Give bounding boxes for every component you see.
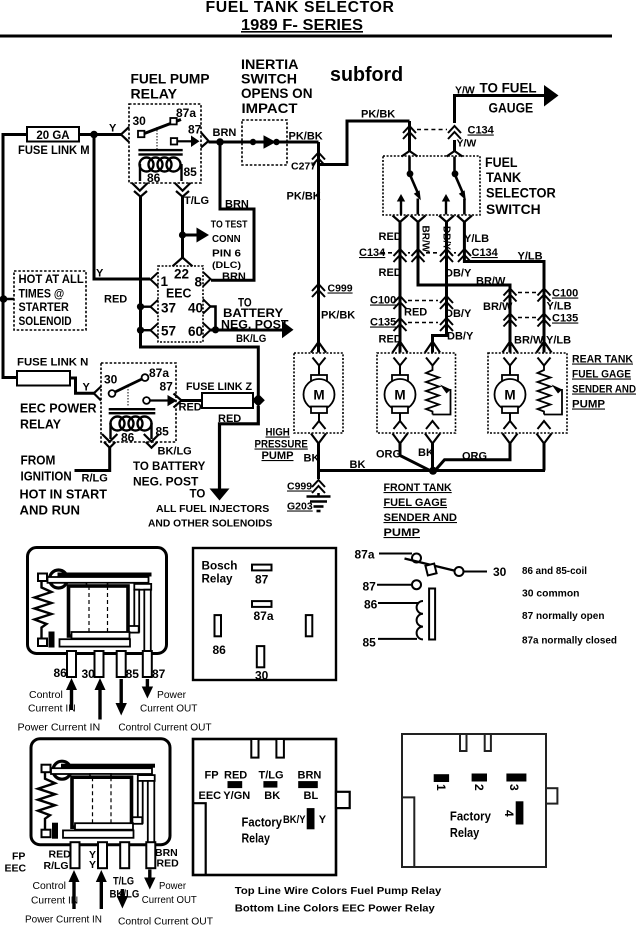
front sender wiper arm	[433, 389, 451, 415]
svg-text:Y: Y	[89, 859, 96, 871]
front sender pin chevron bottom	[426, 421, 439, 429]
rear tank crow feet entry	[503, 342, 518, 353]
svg-text:Relay: Relay	[202, 572, 233, 586]
junction dot Y tap	[90, 131, 98, 139]
svg-text:3: 3	[507, 784, 521, 791]
HP pump motor M	[304, 366, 335, 422]
cutaway2 arrow 87 out	[148, 870, 151, 879]
bosch pin slot 30	[257, 646, 265, 667]
wire ORG front left	[400, 444, 431, 471]
svg-text:RELAY: RELAY	[20, 417, 61, 432]
svg-text:20 GA: 20 GA	[36, 130, 69, 142]
svg-text:FUEL GAGE: FUEL GAGE	[572, 369, 631, 381]
ground symbol G203	[307, 493, 331, 511]
front tank crow feet entry	[393, 342, 408, 353]
svg-text:Current IN: Current IN	[31, 895, 78, 907]
svg-text:Relay: Relay	[450, 826, 479, 840]
factory1 top slot a	[251, 739, 258, 758]
svg-text:TO TEST: TO TEST	[211, 219, 248, 231]
junction dot pin37	[137, 303, 144, 310]
svg-text:ORG: ORG	[376, 449, 401, 461]
wire T/LG 85 riser to EEC pin22	[181, 197, 184, 258]
svg-text:85: 85	[184, 165, 198, 179]
factory2 pin 4	[516, 801, 524, 824]
svg-text:RED: RED	[104, 294, 127, 306]
arrow to battery neg post	[282, 321, 294, 338]
wire PK/BK into switch	[408, 121, 411, 152]
svg-text:FUEL TANK SELECTOR: FUEL TANK SELECTOR	[206, 0, 395, 16]
relay K2 input chevron pin30	[94, 387, 101, 401]
wire left rail	[3, 135, 27, 378]
connector C999 chevrons on PK/BK	[312, 284, 325, 297]
svg-text:EEC: EEC	[199, 790, 222, 802]
switch pole right arm	[456, 176, 464, 195]
bosch relay cutaway drawing 2	[31, 739, 170, 869]
rear sender resistor	[538, 366, 551, 415]
relay K1 wire 87 to output	[178, 140, 193, 142]
switch left open terminal arrow	[400, 201, 402, 215]
cutaway1 caption control current in	[18, 689, 213, 734]
svg-text:87 normally open: 87 normally open	[522, 610, 605, 622]
svg-text:Control Current OUT: Control Current OUT	[118, 722, 212, 734]
junction dot pin57	[137, 327, 144, 334]
svg-text:Factory: Factory	[450, 810, 491, 824]
inertia contact dot right	[273, 139, 279, 145]
svg-text:EEC: EEC	[166, 286, 192, 301]
svg-text:M: M	[394, 388, 405, 403]
front pump pin chevron bottom	[394, 421, 407, 429]
svg-text:M: M	[313, 388, 324, 403]
svg-text:SENDER AND: SENDER AND	[572, 384, 636, 396]
crow foot HP pump exit	[311, 434, 326, 444]
switch right open terminal arrow	[445, 201, 447, 215]
svg-text:30: 30	[82, 667, 96, 681]
svg-text:C100: C100	[370, 295, 396, 307]
wire DB/Y from switch	[433, 222, 447, 353]
svg-text:C134: C134	[472, 247, 499, 259]
svg-text:Factory: Factory	[242, 816, 283, 830]
switch left closed terminal	[416, 199, 419, 215]
dashed link C100 right	[518, 292, 536, 294]
svg-text:40: 40	[188, 301, 203, 316]
svg-text:PK/BK: PK/BK	[361, 109, 395, 121]
wire BRN relay output to inertia switch	[209, 141, 243, 144]
svg-text:60: 60	[188, 324, 203, 339]
rear sender pin chevron bottom	[538, 421, 551, 429]
wire BK rear	[543, 444, 546, 471]
wire BR/W from switch	[418, 222, 510, 353]
relay K2 exit chevrons 86	[102, 434, 117, 448]
svg-text:Power Current IN: Power Current IN	[25, 914, 102, 926]
svg-text:TO BATTERY: TO BATTERY	[133, 461, 206, 473]
svg-text:SENDER AND: SENDER AND	[384, 512, 458, 524]
cutaway1 arrow 30 in	[98, 687, 101, 720]
svg-text:C135: C135	[552, 313, 578, 325]
svg-text:2: 2	[472, 784, 486, 791]
svg-text:SOLENOID: SOLENOID	[19, 316, 72, 328]
svg-text:BRN: BRN	[298, 770, 322, 782]
svg-text:BK/LG: BK/LG	[158, 446, 192, 458]
fuse link Z box	[202, 393, 253, 408]
svg-text:FUEL GAGE: FUEL GAGE	[384, 497, 448, 509]
factory2 pin 2	[472, 774, 487, 782]
svg-text:FP: FP	[12, 851, 25, 863]
junction dot test-conn tap	[179, 231, 186, 238]
svg-text:PK/BK: PK/BK	[321, 310, 355, 322]
svg-text:EEC: EEC	[5, 863, 27, 875]
svg-text:OPENS ON: OPENS ON	[241, 86, 313, 101]
svg-text:INERTIA: INERTIA	[241, 57, 299, 72]
relay schematic coil	[417, 601, 423, 639]
rear tank sender dotted box	[488, 353, 567, 433]
svg-text:STARTER: STARTER	[19, 302, 70, 314]
svg-text:BL: BL	[304, 790, 319, 802]
wire BK ground bus	[319, 444, 546, 471]
front tank crow feet exit	[393, 434, 408, 444]
EEC pin60 chevron	[203, 323, 211, 337]
svg-text:DB/Y: DB/Y	[447, 331, 474, 343]
svg-text:BK: BK	[264, 790, 280, 802]
svg-text:TANK: TANK	[486, 170, 522, 185]
switch pole right arm arrowhead	[459, 190, 466, 200]
svg-text:RED: RED	[218, 413, 241, 425]
wire through inertia switch	[242, 141, 319, 144]
svg-text:4: 4	[502, 810, 516, 817]
svg-text:SWITCH: SWITCH	[241, 72, 297, 87]
HP pump pin chevron top	[313, 358, 326, 366]
svg-text:IMPACT: IMPACT	[242, 101, 299, 116]
junction dot hot-at-all-times	[0, 295, 7, 303]
relay schematic core bar	[429, 589, 435, 640]
EEC pin8 chevron	[203, 272, 211, 286]
relay K2 exit chevrons 85	[144, 434, 159, 448]
switch pole left arm arrowhead	[414, 190, 421, 200]
svg-text:BR/W: BR/W	[420, 226, 431, 253]
svg-text:BR/W: BR/W	[514, 335, 544, 347]
rear sender pin chevron top	[538, 358, 551, 366]
svg-text:ALL FUEL INJECTORS: ALL FUEL INJECTORS	[156, 503, 269, 515]
svg-text:1989 F- SERIES: 1989 F- SERIES	[241, 17, 363, 34]
connector C134 chevrons left (PK/BK)	[403, 126, 416, 139]
svg-text:87a: 87a	[355, 548, 375, 562]
EEC pin37 chevron	[151, 300, 159, 314]
cutaway2 arrow 86 in	[72, 880, 75, 909]
svg-text:87: 87	[160, 380, 174, 394]
svg-text:Current OUT: Current OUT	[140, 703, 198, 715]
svg-text:BK/LG: BK/LG	[236, 333, 266, 345]
junction diamond RED	[252, 394, 265, 407]
crow foot HP pump entry	[311, 342, 326, 353]
wire ground drop	[317, 471, 320, 480]
front pump motor M	[385, 366, 416, 422]
svg-text:Y/GN: Y/GN	[223, 790, 250, 802]
svg-text:BR/W: BR/W	[483, 301, 513, 313]
switch pole left arm	[411, 176, 419, 195]
crow foot Y/W into box	[447, 151, 463, 157]
svg-text:subford: subford	[330, 63, 403, 86]
inertia diode symbol	[264, 135, 277, 148]
arrow to all fuel injectors	[210, 489, 230, 501]
svg-text:TIMES @: TIMES @	[19, 289, 65, 301]
wire to fuel gauge	[455, 96, 546, 124]
svg-text:Bosch: Bosch	[202, 559, 238, 573]
wire fuse Z to junction	[253, 399, 258, 402]
fuse link N box	[17, 371, 70, 386]
svg-text:FRONT TANK: FRONT TANK	[384, 482, 452, 494]
switch right closed terminal	[463, 199, 466, 215]
connector C100 chevrons right pair	[504, 289, 551, 302]
EEC pin40 chevron	[203, 299, 211, 314]
EEC power relay K2 dashed box	[101, 363, 176, 442]
svg-text:AND OTHER SOLENOIDS: AND OTHER SOLENOIDS	[148, 518, 272, 530]
wire RED 86 riser to EEC pins and fuse link Z	[141, 197, 259, 395]
svg-text:TO FUEL: TO FUEL	[480, 81, 537, 96]
svg-text:NEG. POST: NEG. POST	[133, 477, 198, 489]
title rule	[0, 35, 612, 38]
svg-text:Y/W: Y/W	[457, 138, 477, 150]
Bosch relay pinout box	[193, 548, 336, 680]
svg-text:RED: RED	[379, 267, 402, 279]
wire pin40 down to pin60	[211, 307, 216, 330]
svg-text:FUSE LINK M: FUSE LINK M	[18, 145, 90, 157]
svg-text:C277: C277	[291, 161, 316, 173]
wire R/LG from ignition	[75, 448, 110, 471]
wire RED to injectors	[220, 406, 259, 489]
svg-text:87a: 87a	[149, 366, 169, 380]
svg-text:86 and 85-coil: 86 and 85-coil	[522, 565, 587, 577]
arrow to test conn	[197, 228, 210, 243]
wire BK front right	[431, 444, 434, 471]
junction dot pin40/60	[212, 326, 219, 333]
wire stub to HOT box	[3, 298, 14, 301]
front tank sender dotted box	[377, 353, 456, 433]
wire stub pin37	[141, 306, 151, 308]
svg-text:T/LG: T/LG	[259, 770, 284, 782]
svg-text:Bottom Line Colors EEC Power R: Bottom Line Colors EEC Power Relay	[235, 903, 435, 915]
svg-text:86: 86	[364, 598, 378, 612]
svg-text:PK/BK: PK/BK	[287, 191, 321, 203]
svg-text:1: 1	[434, 784, 448, 791]
relay K2 output arrowhead	[168, 395, 178, 406]
svg-text:BRN: BRN	[222, 271, 246, 283]
connector C100 chevrons left pair	[394, 296, 454, 309]
svg-text:ORG: ORG	[462, 451, 487, 463]
wire branch to fuel gauge run	[319, 121, 410, 165]
dashed link C134 pair	[417, 129, 447, 131]
svg-text:87: 87	[188, 123, 202, 137]
rear tank crow feet exit	[503, 434, 518, 444]
svg-text:86: 86	[213, 643, 227, 657]
cutaway1 arrow 87 out	[146, 679, 149, 688]
front sender resistor	[426, 366, 439, 415]
svg-text:RED: RED	[179, 402, 202, 414]
cutaway2 arrow 85 out	[121, 889, 124, 897]
factory1 right notch	[336, 792, 350, 808]
dashed link C100 left	[408, 300, 438, 302]
wire to test conn	[183, 234, 198, 237]
relay K2 switch arm	[114, 378, 144, 393]
svg-text:RED: RED	[157, 858, 180, 870]
svg-text:RED: RED	[224, 770, 247, 782]
EEC pin1 chevron	[151, 273, 159, 287]
svg-text:FROM: FROM	[21, 454, 56, 468]
bosch pin slot 86	[215, 615, 222, 636]
svg-text:IGNITION: IGNITION	[21, 470, 72, 484]
EEC crow foot pin22	[173, 258, 193, 267]
svg-text:Y: Y	[319, 814, 327, 826]
relay K2 coil core bars	[109, 408, 156, 410]
switch pole left dot	[407, 170, 414, 177]
switch pole right dot	[452, 170, 459, 177]
inertia switch S1 dashed box	[242, 120, 287, 165]
svg-text:87: 87	[152, 667, 166, 681]
svg-text:BK: BK	[350, 459, 366, 471]
dashed link C134 row	[381, 252, 456, 254]
svg-text:30 common: 30 common	[522, 588, 580, 600]
cutaway1 arrow 86 in	[70, 687, 73, 710]
high pressure pump dotted box	[294, 353, 343, 433]
factory relay pinout box 2	[402, 734, 546, 867]
svg-text:RELAY: RELAY	[131, 87, 178, 102]
switch pole left pin	[408, 157, 411, 172]
svg-text:86: 86	[54, 666, 68, 680]
factory2 right notch	[546, 788, 557, 803]
front sender pin chevron top	[426, 358, 439, 366]
svg-text:22: 22	[174, 267, 189, 282]
svg-text:SELECTOR: SELECTOR	[486, 186, 556, 201]
svg-text:NEG. POST: NEG. POST	[221, 318, 289, 332]
HOT AT ALL TIMES box	[14, 271, 86, 330]
svg-text:BRN: BRN	[225, 199, 249, 211]
svg-text:Power: Power	[159, 880, 186, 892]
svg-text:Power: Power	[157, 689, 187, 701]
svg-text:PUMP: PUMP	[262, 450, 294, 462]
factory relay pinout box 1	[193, 739, 336, 875]
svg-text:PUMP: PUMP	[572, 399, 605, 411]
relay K1 coil loops	[140, 158, 182, 182]
svg-text:BK: BK	[418, 447, 434, 459]
svg-text:(DLC): (DLC)	[212, 260, 241, 271]
factory1 top slot b	[276, 739, 284, 758]
svg-text:SWITCH: SWITCH	[486, 202, 541, 217]
svg-text:Y: Y	[109, 123, 117, 135]
relay K1 armature link dotted	[156, 127, 158, 149]
wire PK/BK riser down to pump	[317, 142, 320, 353]
relay K2 contact 30	[109, 390, 116, 397]
dashed link C135 right	[518, 317, 536, 319]
svg-text:Control: Control	[33, 880, 67, 892]
connector C999 chevrons at ground	[312, 480, 325, 493]
rear pump motor M	[495, 366, 526, 422]
svg-text:30: 30	[133, 114, 147, 128]
svg-text:87a normally closed: 87a normally closed	[522, 635, 617, 647]
svg-text:C999: C999	[328, 283, 353, 295]
svg-text:C135: C135	[370, 317, 396, 329]
svg-text:Current OUT: Current OUT	[142, 894, 198, 906]
svg-text:C134: C134	[359, 247, 386, 259]
svg-text:HOT AT ALL: HOT AT ALL	[19, 274, 84, 286]
svg-text:RED: RED	[404, 307, 427, 319]
connector row C134 chevrons	[394, 249, 472, 262]
bosch relay cutaway drawing 1	[28, 548, 167, 678]
cutaway2 arrow 30 in	[100, 880, 103, 909]
switch pole right pin	[453, 157, 456, 172]
svg-text:GAUGE: GAUGE	[489, 101, 534, 116]
relay K1 exit chevrons 85	[175, 183, 191, 197]
relay K2 contact 87a	[142, 374, 149, 381]
fuel tank selector switch dotted box	[383, 156, 480, 215]
relay K2 armature link dotted	[127, 386, 129, 406]
svg-text:TO: TO	[190, 489, 206, 501]
svg-text:BR/W: BR/W	[476, 276, 506, 288]
svg-text:Control Current OUT: Control Current OUT	[118, 916, 214, 928]
EEC module dotted box	[158, 266, 203, 342]
wire RED from switch	[399, 222, 402, 353]
svg-text:FUEL: FUEL	[485, 155, 518, 170]
relay schematic pin 30	[455, 567, 464, 576]
rear sender wiper arm	[544, 389, 562, 415]
factory2 left slot	[402, 797, 414, 867]
relay K1 output arrowhead	[191, 136, 200, 148]
factory2 top slot b	[485, 734, 491, 751]
svg-text:PK/BK: PK/BK	[289, 131, 323, 143]
svg-text:FUEL PUMP: FUEL PUMP	[131, 72, 210, 87]
svg-text:87: 87	[363, 580, 377, 594]
svg-text:AND RUN: AND RUN	[20, 504, 81, 518]
svg-text:57: 57	[161, 324, 176, 339]
svg-text:HOT IN START: HOT IN START	[20, 488, 108, 502]
wire Y/W into switch	[453, 140, 456, 152]
svg-text:EEC POWER: EEC POWER	[20, 401, 97, 416]
relay K1 contact 30	[138, 131, 144, 137]
connector C134 chevrons right (Y/W)	[448, 126, 461, 139]
bosch pin slot 85	[306, 615, 313, 636]
svg-text:37: 37	[161, 301, 176, 316]
dashed link C135 left	[408, 322, 438, 324]
svg-text:C999: C999	[287, 481, 312, 493]
svg-text:Y/LB: Y/LB	[546, 335, 571, 347]
factory2 top slot a	[460, 734, 467, 751]
relay K2 wire 87 to output	[150, 399, 169, 401]
svg-text:HIGH: HIGH	[266, 427, 290, 439]
svg-text:Y/W: Y/W	[455, 85, 475, 97]
bosch pin slot 87	[252, 565, 272, 571]
connector C277 chevrons	[312, 153, 325, 166]
wire stub pin57	[141, 329, 151, 331]
fuse link M box (20 GA)	[27, 127, 79, 142]
wire pin60 to battery arrow	[211, 329, 284, 332]
svg-text:FUSE LINK N: FUSE LINK N	[17, 357, 88, 369]
relay K2 coil loops	[111, 417, 152, 440]
svg-text:BK/Y: BK/Y	[283, 814, 306, 826]
svg-text:30: 30	[255, 669, 269, 683]
relay K1 input chevron pin30	[121, 127, 129, 142]
svg-text:REAR TANK: REAR TANK	[572, 354, 633, 366]
relay K1 switch arm	[143, 120, 181, 135]
svg-text:DB/Y: DB/Y	[441, 226, 452, 250]
svg-text:RED: RED	[49, 849, 72, 861]
wire 20GA to relay	[79, 133, 121, 136]
factory1 pin bars	[228, 781, 243, 788]
svg-text:C134: C134	[468, 125, 495, 137]
svg-text:87a: 87a	[176, 106, 196, 120]
inertia contact dot left	[250, 139, 256, 145]
connector C135 chevrons right pair	[504, 314, 551, 327]
svg-text:FP: FP	[205, 770, 219, 782]
svg-text:Top Line Wire Colors Fuel Pump: Top Line Wire Colors Fuel Pump Relay	[235, 885, 442, 897]
svg-text:Current IN: Current IN	[28, 703, 76, 715]
svg-text:T/LG: T/LG	[113, 876, 134, 888]
